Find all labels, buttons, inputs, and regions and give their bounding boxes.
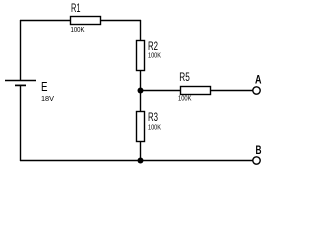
svg-text:100K: 100K — [71, 27, 85, 34]
svg-text:100K: 100K — [178, 96, 192, 103]
svg-text:E: E — [41, 79, 48, 94]
svg-text:100K: 100K — [148, 53, 161, 60]
wire left vertical battery bottom lead — [20, 85, 22, 161]
svg-text:R3: R3 — [148, 110, 158, 124]
resistor R3 — [137, 112, 145, 142]
wire R5 branch (junction node to terminal A) — [140, 90, 253, 92]
svg-text:R1: R1 — [71, 3, 81, 15]
junction node (bottom wire / R3) — [138, 158, 144, 164]
svg-text:B: B — [256, 145, 262, 157]
junction node (R2/R3/R5) — [138, 88, 144, 94]
wire left vertical battery top lead — [20, 20, 22, 80]
resistor R2 — [137, 41, 145, 71]
svg-text:A: A — [255, 75, 262, 87]
wire right vertical (node to node through R2,R3) — [140, 20, 142, 161]
svg-text:R2: R2 — [148, 39, 158, 53]
terminal A — [253, 87, 260, 94]
battery E — [5, 81, 36, 86]
terminal B — [253, 157, 260, 164]
resistor R1 — [71, 17, 101, 25]
svg-text:18V: 18V — [41, 96, 54, 103]
wire top horizontal (battery + to node at top of R2) — [20, 20, 141, 22]
svg-text:R5: R5 — [179, 72, 190, 84]
resistor R5 — [181, 87, 211, 95]
wire bottom horizontal (battery - to terminal B) — [20, 160, 253, 162]
svg-text:100K: 100K — [148, 125, 161, 132]
